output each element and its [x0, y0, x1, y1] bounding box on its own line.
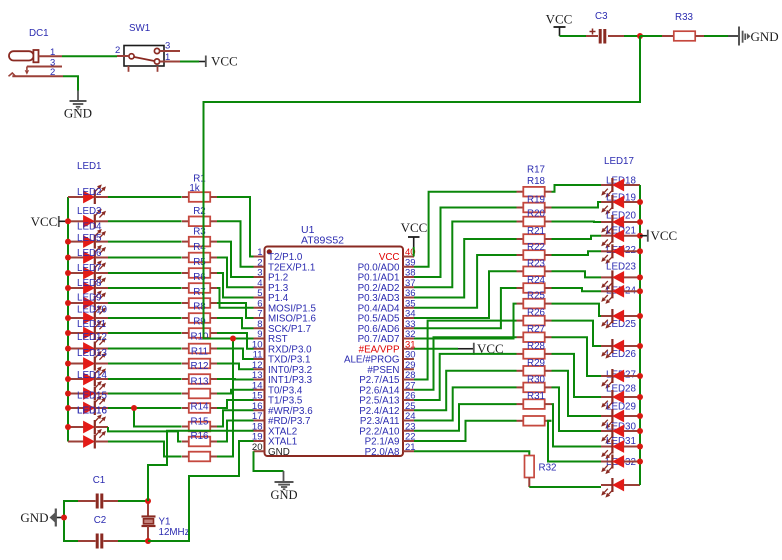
U1 pin 6 (MOSI/P1.5) — [254, 298, 317, 314]
wire LED11 to R11 — [108, 363, 182, 365]
wire U1 pin 21 to R32 — [414, 451, 529, 455]
wire LED12 to R12 — [108, 378, 182, 380]
DC1 pin 2 (sleeve with switch contact) — [9, 67, 64, 79]
LED LED22 — [601, 262, 640, 291]
node: reset junction — [637, 33, 643, 39]
wire tee to R15 — [134, 408, 182, 427]
svg-text:3: 3 — [165, 41, 170, 52]
U1 pin 1 (T2/P1.0) — [254, 247, 303, 263]
wire bottom resistor to reset net — [217, 339, 233, 457]
U1 pin 17 (#RD/P3.7) — [252, 411, 311, 427]
wire SW1 pin1 to VCC — [180, 61, 199, 63]
U1 pin 3 (P1.2) — [254, 268, 289, 284]
wire U1 pin 39 to R17 — [414, 192, 517, 267]
wire R23 to LED23 — [552, 288, 602, 291]
wire R12 to U1 pin 13 — [217, 378, 254, 381]
ground GND (below DC1, earth style) — [64, 91, 92, 121]
resistor R32 — [525, 456, 557, 488]
svg-text:R30: R30 — [527, 374, 546, 385]
resistor R14 — [182, 402, 217, 413]
U1 pin 12 (INT0/P3.2) — [252, 360, 312, 376]
wire LED5 to R5 — [108, 272, 182, 274]
SW1 pin 1 — [160, 52, 180, 63]
wire U1 pin 36 to R20 — [414, 239, 517, 298]
wire R7 to U1 pin 7 — [217, 303, 254, 318]
DC1 pin 1 — [39, 47, 63, 58]
svg-text:LED10: LED10 — [77, 305, 108, 316]
wire U1 pin 20 to GND — [254, 451, 284, 471]
wire R33 to GND — [704, 35, 728, 37]
svg-text:LED4: LED4 — [77, 222, 102, 233]
resistor R13 — [182, 377, 217, 399]
svg-text:LED8: LED8 — [77, 278, 102, 289]
wire U1 pin 22 to R31 — [414, 421, 517, 441]
power port VCC (top right) — [546, 11, 573, 36]
svg-text:R23: R23 — [527, 258, 546, 269]
resistor R18 — [517, 195, 552, 213]
LED LED2 — [68, 187, 108, 228]
svg-text:GND: GND — [270, 488, 297, 502]
U1 pin 9 (RST) — [254, 329, 288, 345]
svg-text:R18: R18 — [527, 176, 546, 187]
svg-text:R19: R19 — [527, 195, 545, 206]
LED LED23 — [601, 284, 640, 304]
LED LED15 — [68, 391, 108, 435]
svg-text:1k: 1k — [189, 183, 199, 194]
resistor R5 — [182, 257, 217, 278]
LED LED28 — [601, 402, 640, 429]
svg-text:R32: R32 — [539, 463, 557, 474]
wire LED7 to R7 — [108, 302, 182, 304]
svg-text:VCC: VCC — [651, 228, 678, 243]
resistor R15 — [182, 416, 217, 431]
U1 pin 4 (P1.3) — [254, 278, 289, 294]
wire R13 to U1 pin 14 — [217, 390, 254, 394]
svg-text:R11: R11 — [191, 347, 208, 358]
LED LED7 — [68, 263, 108, 310]
U1 pin 27 (P2.6/A14) — [359, 380, 415, 396]
wire R21 to LED21 — [552, 251, 602, 255]
svg-text:P2.0/A8: P2.0/A8 — [365, 447, 400, 458]
svg-text:C1: C1 — [93, 475, 106, 486]
LED LED31 — [601, 455, 640, 475]
U1 pin 34 (P0.5/AD5) — [358, 309, 416, 325]
wire R22 to LED22 — [552, 271, 602, 277]
LED LED6 — [68, 248, 108, 295]
U1 pin 35 (P0.4/AD4) — [358, 298, 416, 314]
DC1 pin 3 — [27, 58, 62, 69]
wire R28 to LED28 — [552, 371, 602, 416]
wire R31 to LED31 — [548, 421, 601, 462]
wire R32 to LED32 — [529, 486, 601, 488]
resistor R19 — [517, 209, 552, 227]
power port VCC (U1 pin 31) — [458, 341, 504, 356]
svg-text:AT89S52: AT89S52 — [301, 235, 344, 247]
svg-text:LED12: LED12 — [77, 332, 107, 343]
U1 pin 29 (#PSEN) — [367, 360, 415, 376]
LED LED5 — [68, 233, 108, 280]
resistor R16 — [182, 431, 217, 446]
svg-text:R12: R12 — [191, 361, 209, 372]
U1 pin 30 (ALE/#PROG) — [344, 350, 416, 366]
svg-text:R29: R29 — [527, 358, 545, 369]
resistor R20 — [517, 226, 552, 244]
power ground GND (top right, bar style) — [728, 27, 779, 46]
wire R27 to LED27 — [552, 354, 602, 397]
wire LED15 to R16 — [108, 427, 182, 442]
wire right VCC bus — [639, 185, 641, 485]
capacitor C2 — [78, 515, 118, 549]
wire LED3 to R3 — [108, 241, 182, 243]
wire U1 pin 38 to R18 — [414, 208, 517, 278]
wire U1 pin 34 to R22 — [414, 271, 517, 318]
svg-text:LED23: LED23 — [606, 262, 637, 273]
U1 pin 10 (RXD/P3.0) — [252, 339, 312, 355]
wire R6 to U1 pin 6 — [217, 288, 254, 308]
svg-text:R22: R22 — [527, 242, 545, 253]
resistor R3 — [182, 227, 217, 247]
node: left bus junctions — [65, 218, 71, 224]
resistor R25 — [517, 308, 552, 326]
LED LED32 — [601, 478, 640, 498]
U1 pin 5 (P1.4) — [254, 288, 289, 304]
U1 pin 2 (T2EX/P1.1) — [254, 257, 316, 273]
ground GND (crystal, bar style) — [20, 509, 64, 527]
wire U1 pin 26 to R27 — [414, 354, 517, 400]
wire R17 to LED17 — [552, 185, 602, 192]
U1 pin 19 (XTAL1) — [252, 432, 297, 448]
svg-text:LED6: LED6 — [77, 248, 102, 259]
wire R16 to U1 pin 17 — [217, 421, 254, 442]
U1 pin 31 (#EA/VPP) — [359, 339, 416, 355]
resistor R1 — [182, 174, 217, 202]
svg-text:R14: R14 — [191, 402, 210, 413]
wire U1 pin 28 to R25 — [414, 321, 517, 380]
capacitor C1 — [78, 475, 118, 509]
U1 pin 36 (P0.3/AD3) — [358, 288, 416, 304]
wire DC1 pin2 to GND — [63, 76, 78, 90]
resistor R4 — [182, 242, 217, 262]
svg-text:LED14: LED14 — [77, 370, 108, 381]
svg-text:GND: GND — [20, 510, 48, 525]
resistor R9 — [182, 317, 217, 338]
U1 pin 7 (MISO/P1.6) — [254, 309, 317, 325]
U1 pin 20 (GND) — [252, 442, 290, 458]
wire reset net: junction down, across, down to U1 pin 9 — [204, 36, 641, 339]
capacitor C3 (polarized) — [586, 11, 624, 44]
wire R14 to U1 pin 15 — [217, 400, 254, 408]
LED LED19 — [601, 210, 640, 234]
resistor R27 — [517, 341, 552, 359]
svg-text:GND: GND — [751, 29, 779, 44]
svg-text:LED9: LED9 — [77, 293, 102, 304]
wire R2 to U1 pin 2 — [217, 221, 254, 266]
wire LED10 to R10 — [108, 348, 182, 350]
LED LED29 — [601, 422, 640, 444]
U1 pin 21 (P2.0/A8) — [365, 442, 416, 458]
wire R3 to U1 pin 3 — [217, 242, 254, 277]
LED LED12 — [68, 332, 108, 386]
wire left VCC bus — [67, 197, 69, 442]
resistor R23 — [517, 275, 552, 293]
resistor R (unlabeled) — [182, 452, 217, 462]
svg-text:R16: R16 — [191, 431, 210, 442]
LED LED18 — [601, 193, 640, 215]
wire crystal top to U1 pin 18 — [148, 431, 254, 501]
svg-text:R27: R27 — [527, 324, 545, 335]
svg-text:LED2: LED2 — [77, 187, 102, 198]
power port VCC (U1 pin 40) — [401, 220, 428, 247]
resistor R8 — [182, 302, 217, 323]
LED LED3 — [68, 206, 108, 249]
LED LED14 — [68, 370, 108, 415]
LED LED20 — [601, 226, 640, 249]
wire U1 pin 25 to R28 — [414, 371, 517, 410]
wire R29 to LED29 — [552, 387, 602, 431]
U1 pin 16 (#WR/P3.6) — [252, 401, 313, 417]
resistor R24 — [517, 291, 552, 309]
LED LED9 — [68, 293, 108, 341]
U1 pin 25 (P2.4/A12) — [359, 401, 415, 417]
resistor R11 — [182, 347, 217, 369]
svg-text:R15: R15 — [191, 416, 210, 427]
svg-text:R25: R25 — [527, 291, 546, 302]
wire R26 to LED26 — [552, 337, 602, 376]
LED LED27 — [601, 384, 640, 410]
node: crystal bottom junction — [145, 538, 151, 544]
wire LED13 to R13 — [108, 393, 182, 395]
power port VCC (left bus) — [31, 214, 68, 229]
wire U1 pin 37 to R19 — [414, 222, 517, 288]
U1 pin 15 (T1/P3.5) — [252, 391, 303, 407]
crystal Y1 12MHz — [142, 501, 190, 541]
LED LED11 — [68, 319, 108, 371]
LED LED10 — [68, 305, 108, 356]
resistor R30 — [517, 391, 552, 409]
svg-text:2: 2 — [115, 45, 120, 56]
LED LED17 — [601, 176, 640, 198]
svg-text:R13: R13 — [191, 377, 210, 388]
wire R9 to U1 pin 10 — [217, 333, 254, 349]
ground GND (below U1, earth style) — [270, 471, 297, 502]
U1 pin 33 (P0.6/AD6) — [358, 319, 416, 335]
LED LED13 — [68, 348, 108, 401]
wire U1 pin 24 to R29 — [414, 387, 517, 420]
svg-text:R26: R26 — [527, 308, 546, 319]
resistor R6 — [182, 272, 217, 293]
resistor R12 — [182, 361, 217, 384]
svg-text:1: 1 — [165, 52, 170, 63]
power port VCC (at SW1) — [199, 53, 238, 68]
U1 pin 39 (P0.0/AD0) — [358, 257, 416, 273]
LED LED25 — [601, 339, 640, 360]
wire R18 to LED18 — [552, 202, 602, 208]
U1 pin 23 (P2.2/A10) — [359, 421, 415, 437]
wire R11 to U1 pin 12 — [217, 364, 254, 370]
wire R25 to LED25 — [552, 321, 602, 346]
wire R4 to U1 pin 4 — [217, 258, 254, 288]
svg-text:LED5: LED5 — [77, 233, 102, 244]
switch SW1 — [124, 23, 164, 72]
U1 pin 26 (P2.5/A13) — [359, 391, 415, 407]
svg-text:Y1: Y1 — [159, 517, 171, 528]
LED LED16 — [68, 406, 108, 449]
resistor R31 — [517, 416, 552, 426]
power port VCC (right bus) — [640, 228, 677, 243]
op-amp/IC U1 AT89S52 — [265, 224, 404, 456]
LED LED30 — [601, 436, 640, 459]
wire LED14 to R14 — [108, 407, 182, 409]
svg-text:LED3: LED3 — [77, 206, 102, 217]
svg-text:LED13: LED13 — [77, 348, 108, 359]
svg-text:LED17: LED17 — [604, 156, 634, 167]
svg-text:VCC: VCC — [211, 53, 238, 68]
wire DC1 pin1 to SW1 pin2 — [62, 55, 117, 57]
connector DC1 (DC power jack) — [9, 28, 49, 62]
resistor R21 — [517, 242, 552, 260]
wire LED4 to R4 — [108, 257, 182, 259]
svg-text:DC1: DC1 — [29, 28, 49, 39]
wire R24 to LED24 — [552, 304, 602, 316]
svg-text:LED29: LED29 — [606, 402, 636, 413]
U1 pin 22 (P2.1/A9) — [365, 432, 416, 448]
resistor R26 — [517, 324, 552, 342]
wire C1 left to C2 left (bus) — [64, 501, 78, 541]
wire R19 to LED19 — [552, 221, 602, 224]
svg-text:LED16: LED16 — [77, 406, 108, 417]
wire VCC to C3 — [560, 35, 587, 37]
LED LED21 — [601, 244, 640, 264]
svg-text:VCC: VCC — [401, 220, 428, 235]
LED LED26 — [601, 369, 640, 389]
svg-text:VCC: VCC — [31, 214, 58, 229]
svg-text:21: 21 — [405, 442, 416, 453]
U1 pin 8 (SCK/P1.7) — [254, 319, 312, 335]
resistor R2 — [182, 206, 217, 226]
svg-text:SW1: SW1 — [129, 23, 150, 34]
svg-text:2: 2 — [50, 67, 55, 78]
svg-text:LED7: LED7 — [77, 263, 102, 274]
wire U1 pin 27 to R26 — [414, 337, 517, 390]
svg-text:LED1: LED1 — [77, 161, 102, 172]
resistor R22 — [517, 258, 552, 276]
resistor R33 — [662, 12, 704, 41]
svg-text:20: 20 — [252, 442, 263, 453]
U1 pin 14 (T0/P3.4) — [252, 380, 303, 396]
SW1 pin 2 — [115, 45, 129, 56]
svg-text:GND: GND — [268, 447, 290, 458]
svg-text:C2: C2 — [94, 515, 107, 526]
wire U1 pin 35 to R21 — [414, 255, 517, 308]
wire LED6 to R6 — [108, 287, 182, 289]
svg-text:R31: R31 — [527, 391, 545, 402]
svg-text:R33: R33 — [675, 12, 694, 23]
svg-text:VCC: VCC — [546, 11, 573, 26]
wire R1 to U1 pin 1 — [217, 197, 254, 257]
LED LED8 — [68, 278, 108, 325]
wire U1 pin31 to VCC — [414, 348, 458, 350]
wire U1 pin 23 to R30 — [414, 404, 517, 431]
svg-text:R21: R21 — [527, 226, 545, 237]
svg-text:1: 1 — [50, 47, 55, 58]
svg-text:12MHz: 12MHz — [159, 527, 190, 538]
wire C1 to crystal junction — [118, 500, 148, 502]
svg-text:C3: C3 — [595, 11, 608, 22]
U1 pin 37 (P0.2/AD2) — [358, 278, 416, 294]
U1 pin 24 (P2.3/A11) — [360, 411, 416, 427]
SW1 pin 3 (stub) — [160, 41, 180, 52]
U1 pin 11 (TXD/P3.1) — [253, 350, 311, 366]
wire R8 to U1 pin 8 — [217, 318, 254, 328]
wire U1 pin 33 to R23 — [414, 288, 517, 328]
wire R30 to LED30 — [552, 404, 602, 446]
wire LED9 to R9 — [108, 332, 182, 334]
wire C3 to junction — [624, 35, 640, 37]
wire LED1 to R1 — [108, 196, 182, 198]
wire VCC to pin 40 — [413, 247, 415, 257]
svg-text:LED11: LED11 — [77, 319, 106, 330]
LED LED24 — [601, 309, 640, 330]
wire C2 to crystal junction — [118, 540, 148, 542]
resistor R17 — [517, 176, 552, 197]
wire R15 to U1 pin 16 — [217, 410, 254, 426]
LED LED4 — [68, 222, 108, 265]
U1 pin 32 (P0.7/AD7) — [358, 329, 416, 345]
wire LED16 to bottom resistor — [108, 442, 182, 457]
U1 pin 40 (VCC) — [379, 247, 416, 263]
resistor R28 — [517, 358, 552, 376]
svg-text:R20: R20 — [527, 209, 546, 220]
U1 pin 38 (P0.1/AD1) — [358, 268, 416, 284]
wire LED8 to R8 — [108, 317, 182, 319]
wire R5 to U1 pin 5 — [217, 273, 254, 298]
wire R20 to LED20 — [552, 236, 602, 239]
svg-text:GND: GND — [64, 106, 92, 121]
U1 pin 18 (XTAL2) — [252, 421, 297, 437]
U1 pin 28 (P2.7/A15) — [359, 370, 415, 386]
node: right bus junctions — [637, 199, 643, 205]
svg-text:R10: R10 — [191, 332, 210, 343]
wire R10 to U1 pin 11 — [217, 349, 254, 360]
LED LED1 — [68, 184, 108, 204]
resistor R7 — [182, 287, 217, 308]
wire LED2 to R2 — [108, 220, 182, 222]
wire U1 pin 32 to R24 — [414, 304, 517, 339]
svg-text:R24: R24 — [527, 275, 546, 286]
wire crystal bottom to U1 pin 19 — [148, 441, 254, 541]
svg-text:LED15: LED15 — [77, 391, 108, 402]
node: crystal top junction — [145, 498, 151, 504]
svg-text:R28: R28 — [527, 341, 546, 352]
resistor R10 — [182, 332, 217, 354]
wire junction to R33 — [640, 35, 662, 37]
U1 pin 13 (INT1/P3.3) — [252, 370, 313, 386]
resistor R29 — [517, 374, 552, 392]
svg-text:R17: R17 — [527, 165, 545, 176]
